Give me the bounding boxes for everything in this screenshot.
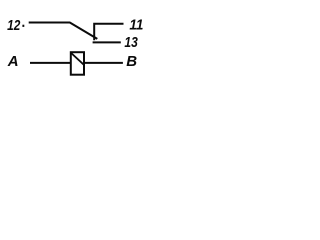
svg-text:A: A	[7, 53, 19, 70]
coil K1 box	[71, 52, 84, 74]
coil diagonal stroke	[71, 53, 84, 65]
svg-text:B: B	[126, 53, 137, 70]
terminal 13 wire	[93, 41, 121, 43]
wire from 12 with switch blade	[29, 23, 98, 39]
artifact dot after 12	[22, 25, 24, 27]
svg-text:11: 11	[129, 17, 143, 34]
svg-text:13: 13	[124, 34, 138, 51]
relay schematic	[0, 0, 150, 90]
svg-text:12: 12	[7, 17, 21, 34]
terminal 11 elbow wire	[94, 24, 123, 41]
wire coil to B	[84, 62, 123, 64]
wire A to coil	[30, 62, 71, 64]
